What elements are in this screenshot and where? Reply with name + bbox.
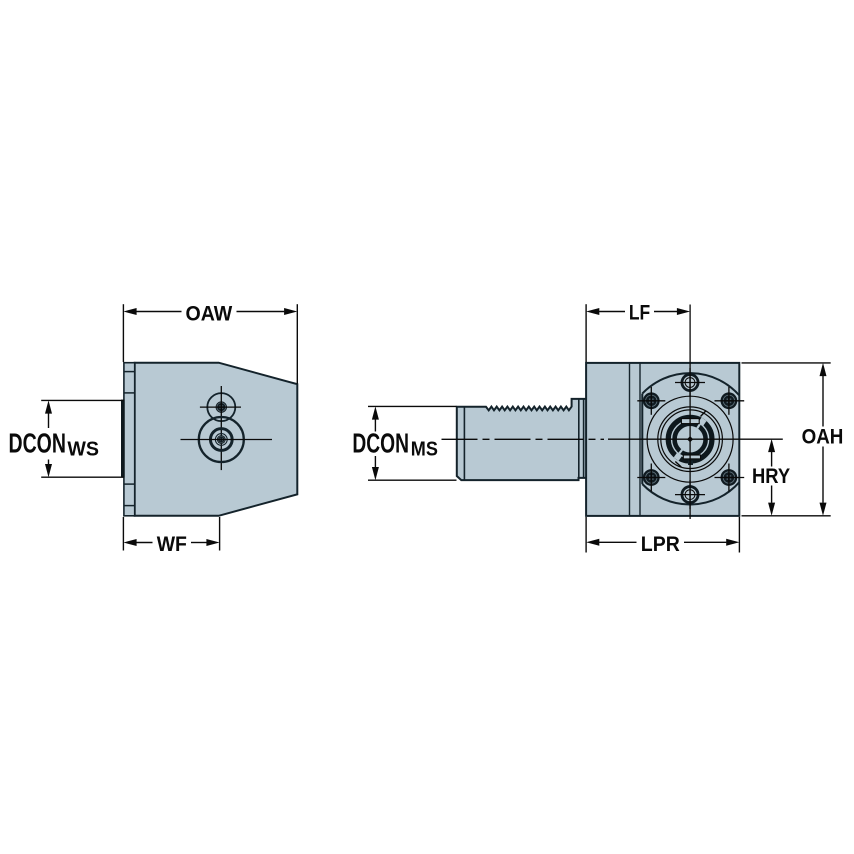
svg-text:DCON: DCON <box>9 427 66 458</box>
bore slot diagonal marks <box>701 411 706 417</box>
screw top-left <box>643 392 660 409</box>
dimension OAH <box>742 362 831 364</box>
dimension WF <box>122 517 124 551</box>
svg-text:LPR: LPR <box>641 533 680 556</box>
screw bottom-right <box>721 469 738 486</box>
svg-text:LF: LF <box>629 302 650 325</box>
shaft collar lines <box>578 399 580 478</box>
dimension HRY <box>771 452 773 467</box>
svg-text:OAW: OAW <box>186 302 233 325</box>
svg-text:OAH: OAH <box>802 426 844 449</box>
dimension OAW <box>122 304 124 362</box>
shaft centerline (dash-dot) <box>442 438 605 440</box>
dimension LF <box>585 304 587 362</box>
left view: flange strip <box>124 363 135 516</box>
left view: holder body <box>135 363 298 516</box>
bore top key slot <box>681 419 699 424</box>
right view: clamping shaft with threads <box>457 399 587 480</box>
left view: large hole <box>199 417 244 462</box>
svg-text:HRY: HRY <box>752 465 790 488</box>
screw bottom-center <box>682 487 698 503</box>
dimension DCON WS <box>41 399 124 401</box>
right view: block body <box>586 363 739 516</box>
bore bottom slot <box>683 455 700 459</box>
bore outer thick ring B <box>668 417 712 461</box>
left view: holes vertical centerline <box>220 386 222 470</box>
left view: small hole <box>207 393 235 421</box>
bore crosshair + center mark <box>608 438 783 440</box>
left view: coupling face black band <box>121 400 125 478</box>
screw bottom-left <box>643 469 660 486</box>
dimension LPR <box>585 517 587 553</box>
screw top-center <box>682 374 698 390</box>
bore inner thick ring A <box>675 424 706 455</box>
dimension DCON MS <box>368 405 457 407</box>
screw top-right <box>721 392 738 409</box>
svg-text:WS: WS <box>67 439 99 461</box>
svg-text:DCON: DCON <box>352 427 409 458</box>
bore bottom tab <box>688 461 693 465</box>
block inner edge lines <box>629 363 631 516</box>
shaft end chamfer line <box>463 407 465 480</box>
right view: flange outline <box>642 373 739 395</box>
svg-text:MS: MS <box>411 439 438 461</box>
right view: center bore rings <box>647 396 733 482</box>
svg-text:WF: WF <box>157 533 187 556</box>
